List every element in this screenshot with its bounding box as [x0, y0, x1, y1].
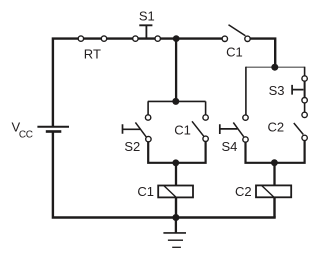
- wire right distribution horizontal: [246, 66, 305, 68]
- svg-text:C1: C1: [137, 184, 154, 199]
- pushbutton S2 actuator: [123, 124, 141, 134]
- svg-text:C2: C2: [268, 120, 285, 135]
- wire drop to C1 latch contact: [205, 101, 207, 117]
- svg-text:C2: C2: [235, 184, 252, 199]
- wire coil C1 feed: [175, 163, 177, 186]
- pushbutton S4 actuator: [220, 124, 238, 134]
- wire mid distribution horizontal: [148, 100, 206, 102]
- pushbutton S4 blade: [233, 123, 243, 137]
- wire coil C1 to bus: [175, 197, 177, 217]
- wire from C1 contact right and down to right distribution node: [248, 39, 276, 68]
- node right distribution: [271, 64, 278, 71]
- pushbutton S1 terminals: [133, 36, 138, 41]
- wire S3 to C2 contact: [304, 100, 306, 115]
- contact C2 blade: [294, 123, 304, 135]
- svg-text:S2: S2: [124, 139, 140, 154]
- node right branch bottom: [271, 159, 278, 166]
- pushbutton S2 terminals: [145, 115, 150, 120]
- wire coil C2 feed: [273, 163, 275, 186]
- svg-text:C1: C1: [226, 44, 243, 59]
- wire left rail: battery top up and across top to C1 contact: [53, 39, 225, 127]
- wire coil C2 to bus: [273, 197, 275, 217]
- wire from S1 node down to mid distribution node: [175, 39, 177, 102]
- node left branch bottom: [172, 159, 179, 166]
- pushbutton S2 blade: [135, 122, 146, 137]
- pushbutton S3 terminals: [302, 76, 307, 81]
- svg-text:S1: S1: [139, 9, 155, 24]
- node at S1 output: [173, 35, 180, 42]
- contact C1 latch blade: [192, 121, 204, 136]
- wire battery negative down and bottom bus to coil C2: [53, 132, 276, 218]
- contact C2 terminals: [302, 112, 307, 117]
- svg-text:C1: C1: [174, 122, 191, 137]
- pushbutton S3 blade: [304, 79, 306, 101]
- pushbutton S3 actuator: [292, 85, 303, 95]
- relay coil C2: [256, 185, 291, 197]
- node mid distribution: [172, 98, 179, 105]
- relay coil C1: [158, 186, 193, 198]
- contact C1 top terminals: [222, 36, 227, 41]
- contact C1 top blade: [229, 25, 246, 36]
- pushbutton S1 actuator: [139, 25, 152, 37]
- svg-text:CC: CC: [19, 130, 33, 141]
- wire drop to S2: [147, 101, 149, 117]
- pushbutton S4 terminals: [243, 115, 248, 120]
- node ground bus: [172, 214, 179, 221]
- wire bottom U of right branch: [246, 138, 305, 163]
- wire drop to S4: [245, 67, 247, 118]
- svg-text:S3: S3: [269, 83, 285, 98]
- battery VCC positive plate: [37, 126, 69, 128]
- svg-text:RT: RT: [84, 47, 101, 62]
- ground: [175, 218, 177, 233]
- contact C1 latch terminals: [203, 115, 208, 120]
- wire drop to S3: [304, 67, 306, 79]
- svg-text:S4: S4: [222, 139, 238, 154]
- battery VCC negative plate: [46, 130, 62, 133]
- thermal contact RT terminals: [78, 36, 83, 41]
- wire bottom U of left branch: [148, 139, 205, 163]
